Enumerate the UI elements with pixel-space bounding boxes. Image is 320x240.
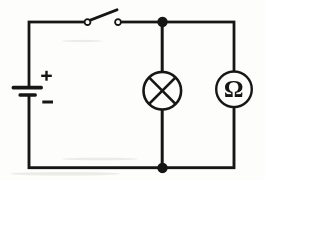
ohmmeter M1 circle: [216, 72, 252, 108]
wire lamp branch upper: [161, 22, 164, 73]
node junction bottom (dot): [157, 163, 167, 173]
lamp DS1 circle: [144, 72, 182, 110]
switch S1 left terminal: [85, 19, 91, 25]
svg-text:Ω: Ω: [224, 76, 244, 103]
lamp DS1 cross stroke 1: [149, 78, 175, 104]
wire bottom loop: battery minus, bottom rail, up to ohmmeter: [29, 96, 234, 168]
wire lamp branch lower: [161, 109, 164, 167]
switch S1 right terminal: [115, 19, 121, 25]
battery polarity label +: [41, 71, 52, 81]
battery polarity label -: [42, 101, 53, 104]
lamp DS1 cross stroke 2: [149, 78, 175, 104]
node junction top (dot): [157, 17, 167, 27]
battery BT1 positive plate (long bar): [14, 86, 42, 90]
wire top from switch to top-right corner, down to ohmmeter: [121, 22, 234, 71]
wire top-left + left side down to battery: [29, 22, 85, 87]
scan smudges (decorative): [10, 40, 138, 176]
switch S1 lever (open blade): [90, 10, 117, 20]
battery BT1 negative plate (short bar): [20, 93, 35, 97]
